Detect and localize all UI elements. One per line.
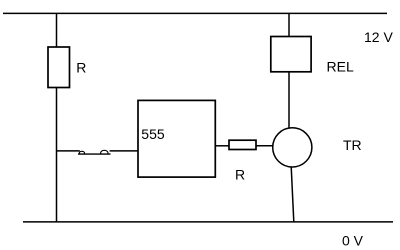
wire: R1 bottom down to 0V rail (56, 88, 58, 222)
wire: 0V bottom rail (23, 221, 393, 223)
wire: 555 output to resistor R2 (215, 145, 229, 147)
wire: top rail down to relay (288, 13, 290, 36)
svg-text:0 V: 0 V (342, 232, 364, 248)
transistor Q1 circle (273, 128, 312, 167)
svg-text:R: R (235, 166, 245, 182)
relay REL box (271, 37, 311, 72)
switch SW1 (push-to-make) (78, 150, 111, 154)
svg-text:12 V: 12 V (364, 29, 393, 45)
svg-text:TR: TR (343, 137, 362, 153)
wire: relay to transistor collector (288, 72, 290, 129)
op-amp U1: 555 timer box (138, 100, 215, 177)
wire: left wire to switch (57, 150, 80, 152)
wire: transistor emitter to 0V rail (291, 167, 294, 222)
wire: switch to 555 (110, 150, 138, 152)
resistor R2 (229, 140, 256, 149)
wire: +12V top rail (3, 12, 387, 14)
wire: R2 to transistor base (256, 145, 273, 147)
svg-text:REL: REL (327, 59, 354, 75)
svg-text:555: 555 (141, 126, 165, 142)
wire: left rail drop to resistor R1 (56, 13, 58, 47)
resistor R1 (48, 47, 70, 88)
svg-text:R: R (76, 60, 86, 76)
